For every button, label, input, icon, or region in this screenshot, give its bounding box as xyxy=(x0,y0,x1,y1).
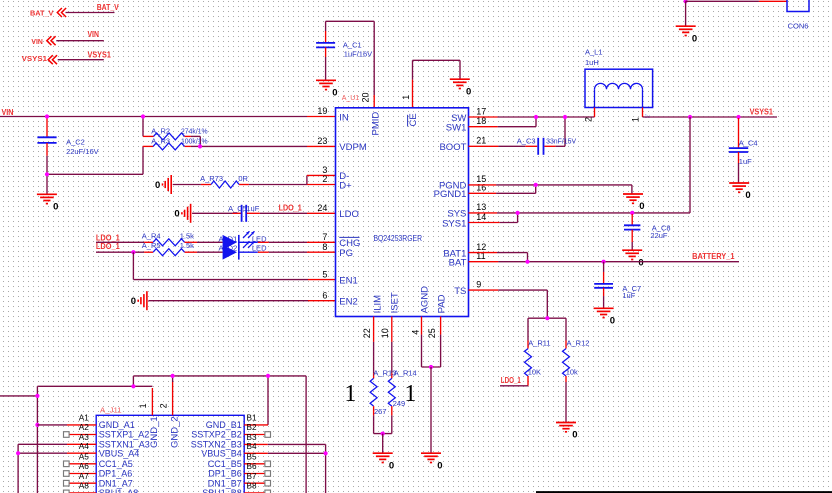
svg-text:274k/1%: 274k/1% xyxy=(181,126,208,135)
svg-text:CC1_B5: CC1_B5 xyxy=(208,459,242,469)
svg-text:VSYS1: VSYS1 xyxy=(22,54,47,63)
svg-text:BOOT: BOOT xyxy=(439,142,466,153)
svg-text:2: 2 xyxy=(322,174,327,184)
svg-text:VDPM: VDPM xyxy=(339,142,367,153)
svg-text:1uF: 1uF xyxy=(622,291,635,300)
svg-text:VSYS1: VSYS1 xyxy=(750,107,774,117)
svg-text:23: 23 xyxy=(317,136,327,146)
svg-text:13: 13 xyxy=(476,202,486,212)
svg-text:BAT_V: BAT_V xyxy=(97,3,120,12)
svg-text:1: 1 xyxy=(401,95,411,100)
svg-text:VIN: VIN xyxy=(2,107,14,117)
svg-text:0: 0 xyxy=(572,430,577,441)
svg-text:9: 9 xyxy=(476,279,481,289)
svg-text:A_C1: A_C1 xyxy=(343,40,362,49)
svg-text:IN: IN xyxy=(339,112,349,123)
svg-text:1.5k: 1.5k xyxy=(180,241,194,250)
svg-text:19: 19 xyxy=(317,106,327,116)
svg-text:VSYS1: VSYS1 xyxy=(88,51,112,60)
svg-text:0: 0 xyxy=(53,202,58,213)
svg-text:BAT_V: BAT_V xyxy=(30,9,53,18)
svg-text:0: 0 xyxy=(610,316,615,327)
svg-text:B6: B6 xyxy=(247,462,257,471)
svg-text:0: 0 xyxy=(638,257,643,268)
svg-text:A5: A5 xyxy=(79,453,89,462)
svg-text:SSTXP2_B2: SSTXP2_B2 xyxy=(191,430,242,440)
svg-text:LDO_1: LDO_1 xyxy=(279,202,302,212)
svg-text:A_C2: A_C2 xyxy=(66,138,85,147)
svg-text:TS: TS xyxy=(454,286,466,297)
svg-text:GND_B1: GND_B1 xyxy=(206,420,242,430)
svg-text:0: 0 xyxy=(332,88,337,99)
svg-text:VIN: VIN xyxy=(88,30,100,39)
svg-text:0: 0 xyxy=(174,209,179,220)
svg-text:DP1_B6: DP1_B6 xyxy=(208,469,242,479)
svg-text:A_R2: A_R2 xyxy=(151,126,170,135)
svg-text:2: 2 xyxy=(584,117,594,122)
svg-text:10k: 10k xyxy=(566,368,578,377)
svg-text:A_R73: A_R73 xyxy=(200,174,223,183)
svg-text:0: 0 xyxy=(155,180,160,191)
svg-text:B1: B1 xyxy=(247,414,257,423)
svg-text:1: 1 xyxy=(138,403,148,408)
svg-text:SBU1_A8: SBU1_A8 xyxy=(99,488,139,493)
svg-text:B2: B2 xyxy=(247,423,257,432)
svg-text:22uF: 22uF xyxy=(650,231,668,240)
svg-text:A_R12: A_R12 xyxy=(567,339,590,348)
svg-text:A1: A1 xyxy=(79,414,89,423)
svg-text:0: 0 xyxy=(692,33,697,44)
svg-text:PG: PG xyxy=(339,248,353,259)
svg-text:B5: B5 xyxy=(247,453,257,462)
svg-text:PAD: PAD xyxy=(437,294,448,313)
svg-text:0: 0 xyxy=(437,460,442,471)
svg-text:A_R11: A_R11 xyxy=(528,339,550,348)
svg-text:22: 22 xyxy=(362,328,372,338)
svg-text:SSTXP1_A2: SSTXP1_A2 xyxy=(99,430,150,440)
svg-text:AGND: AGND xyxy=(419,286,430,314)
svg-text:CE: CE xyxy=(408,113,419,126)
svg-text:A_C5: A_C5 xyxy=(228,204,247,213)
svg-text:VBUS_A4: VBUS_A4 xyxy=(99,449,140,459)
svg-text:B7: B7 xyxy=(247,472,257,481)
svg-text:17: 17 xyxy=(476,106,486,116)
svg-text:ILIM: ILIM xyxy=(373,295,384,314)
svg-text:A_R4: A_R4 xyxy=(142,231,161,240)
svg-text:GND_A1: GND_A1 xyxy=(99,420,135,430)
svg-text:A4: A4 xyxy=(79,442,89,451)
svg-text:A_R14: A_R14 xyxy=(394,369,417,378)
svg-text:1: 1 xyxy=(404,381,416,407)
svg-text:GND_2: GND_2 xyxy=(169,416,180,448)
svg-text:267: 267 xyxy=(374,407,387,416)
svg-text:25: 25 xyxy=(427,328,437,338)
svg-text:BQ24253RGER: BQ24253RGER xyxy=(374,234,423,243)
svg-text:PGND1: PGND1 xyxy=(434,189,467,200)
svg-text:1uF: 1uF xyxy=(246,204,259,213)
svg-text:0R: 0R xyxy=(238,174,248,183)
svg-text:SBU1_B8: SBU1_B8 xyxy=(202,488,242,493)
svg-text:A_L1: A_L1 xyxy=(585,48,603,57)
svg-text:CON6: CON6 xyxy=(788,22,809,31)
svg-text:0: 0 xyxy=(466,86,471,97)
svg-text:A_C3: A_C3 xyxy=(517,136,536,145)
svg-text:LDO: LDO xyxy=(339,209,359,220)
svg-text:10K: 10K xyxy=(528,368,541,377)
svg-text:249: 249 xyxy=(393,399,406,408)
svg-text:0: 0 xyxy=(131,296,136,307)
svg-text:1uF/16V: 1uF/16V xyxy=(344,50,372,59)
svg-text:DP1_A6: DP1_A6 xyxy=(99,469,133,479)
svg-text:33nF/15V: 33nF/15V xyxy=(546,136,576,145)
svg-text:PMID: PMID xyxy=(370,112,381,136)
svg-text:16: 16 xyxy=(476,183,486,193)
svg-text:1: 1 xyxy=(631,117,641,122)
svg-text:DN1_B7: DN1_B7 xyxy=(208,478,242,488)
svg-text:0: 0 xyxy=(745,190,750,201)
svg-text:A_C4: A_C4 xyxy=(739,139,758,148)
svg-text:SW1: SW1 xyxy=(446,123,467,134)
svg-text:A8: A8 xyxy=(79,482,89,491)
svg-text:0: 0 xyxy=(389,460,394,471)
svg-text:1: 1 xyxy=(344,381,356,407)
svg-text:24: 24 xyxy=(317,203,327,213)
svg-text:EN1: EN1 xyxy=(339,275,357,286)
svg-text:EN2: EN2 xyxy=(339,297,357,308)
svg-text:A3: A3 xyxy=(79,433,89,442)
svg-text:7: 7 xyxy=(322,232,327,242)
svg-text:2: 2 xyxy=(159,403,169,408)
svg-text:B8: B8 xyxy=(247,482,257,491)
svg-text:8: 8 xyxy=(322,242,327,252)
svg-text:A2: A2 xyxy=(79,423,89,432)
svg-text:DN1_A7: DN1_A7 xyxy=(99,478,133,488)
svg-text:VBUS_B4: VBUS_B4 xyxy=(201,449,242,459)
svg-text:A6: A6 xyxy=(79,462,89,471)
svg-text:B4: B4 xyxy=(247,442,257,451)
svg-text:LDO_1: LDO_1 xyxy=(501,375,521,385)
svg-text:A_R3: A_R3 xyxy=(151,136,170,145)
svg-text:BAT: BAT xyxy=(449,258,467,269)
svg-text:10: 10 xyxy=(380,328,390,338)
svg-text:22uF/16V: 22uF/16V xyxy=(66,147,99,156)
svg-text:A7: A7 xyxy=(79,472,89,481)
svg-text:6: 6 xyxy=(322,290,327,300)
svg-text:VIN: VIN xyxy=(31,37,42,46)
svg-text:4: 4 xyxy=(411,330,421,335)
svg-text:B3: B3 xyxy=(247,433,257,442)
svg-text:0: 0 xyxy=(639,201,644,212)
svg-text:1.5k: 1.5k xyxy=(180,231,194,240)
svg-text:CC1_A5: CC1_A5 xyxy=(99,459,133,469)
svg-text:5: 5 xyxy=(322,269,327,279)
svg-text:BATTERY_1: BATTERY_1 xyxy=(692,251,735,261)
svg-text:A_U1: A_U1 xyxy=(342,95,360,102)
svg-text:21: 21 xyxy=(476,136,486,146)
svg-text:D+: D+ xyxy=(339,180,352,191)
svg-text:GND_1: GND_1 xyxy=(149,416,160,448)
svg-text:100k/1%: 100k/1% xyxy=(181,136,208,145)
svg-text:1uH: 1uH xyxy=(585,58,599,67)
svg-text:20: 20 xyxy=(361,92,371,102)
svg-text:A_J11: A_J11 xyxy=(100,408,122,415)
svg-text:SYS1: SYS1 xyxy=(442,218,466,229)
svg-text:ISET: ISET xyxy=(390,292,401,313)
svg-text:A_R5: A_R5 xyxy=(142,241,161,250)
svg-text:LED: LED xyxy=(252,243,267,252)
svg-text:1uF: 1uF xyxy=(739,157,752,166)
